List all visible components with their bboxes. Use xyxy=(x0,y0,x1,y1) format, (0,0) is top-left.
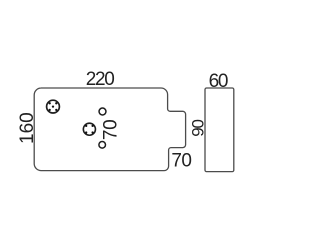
svg-text:70: 70 xyxy=(101,120,122,141)
front view outline xyxy=(34,88,185,171)
hole pattern B (center) xyxy=(83,123,95,135)
side view rectangle xyxy=(205,88,234,172)
hole D (lower small) xyxy=(99,142,106,149)
svg-text:160: 160 xyxy=(17,112,38,144)
svg-text:220: 220 xyxy=(86,69,115,90)
svg-text:70: 70 xyxy=(171,151,191,172)
svg-text:90: 90 xyxy=(188,120,207,137)
hole C (upper small) xyxy=(99,108,106,115)
svg-text:60: 60 xyxy=(209,71,228,92)
hole pattern A (top-left) xyxy=(47,100,60,113)
